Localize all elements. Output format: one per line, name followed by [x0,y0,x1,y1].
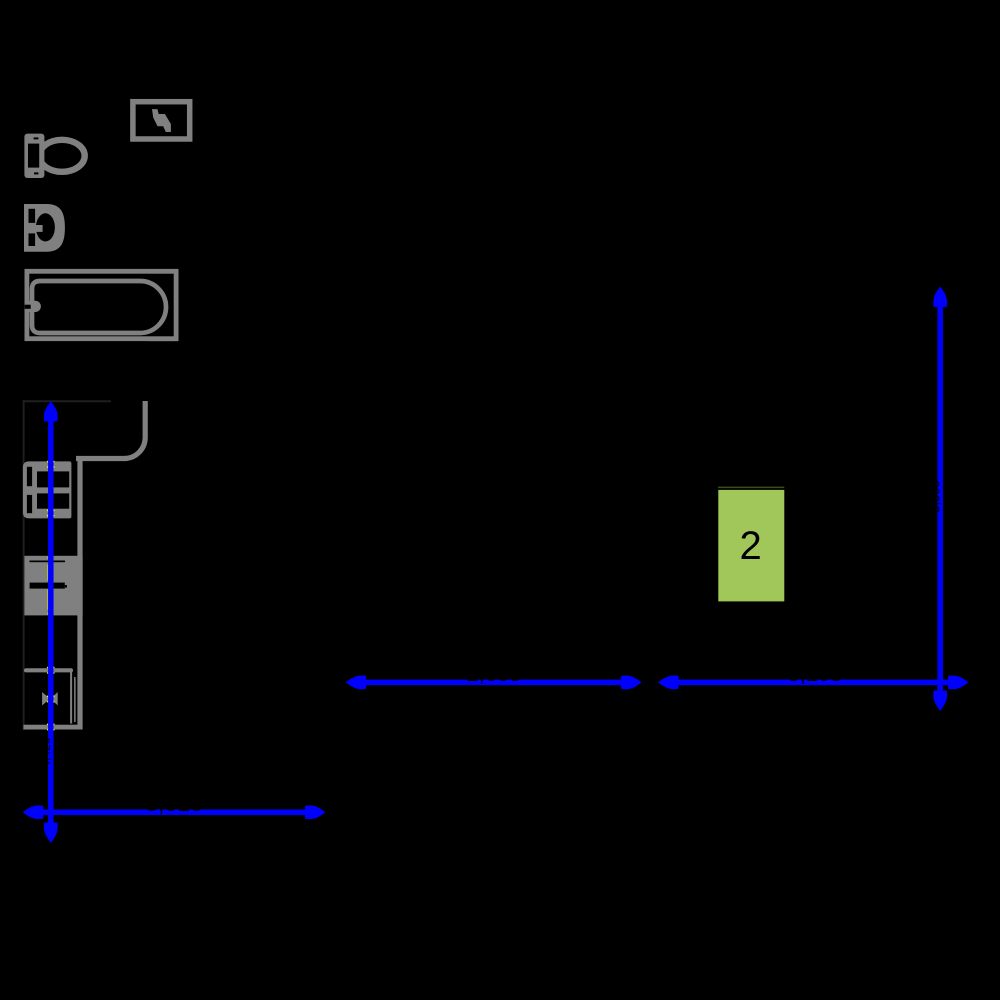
svg-text:4,420: 4,420 [39,737,53,767]
svg-text:2: 2 [739,524,761,568]
svg-text:3,960: 3,960 [927,480,942,513]
svg-text:2,605: 2,605 [466,661,521,686]
svg-text:3,105: 3,105 [787,661,842,686]
svg-text:3,010: 3,010 [145,790,203,816]
